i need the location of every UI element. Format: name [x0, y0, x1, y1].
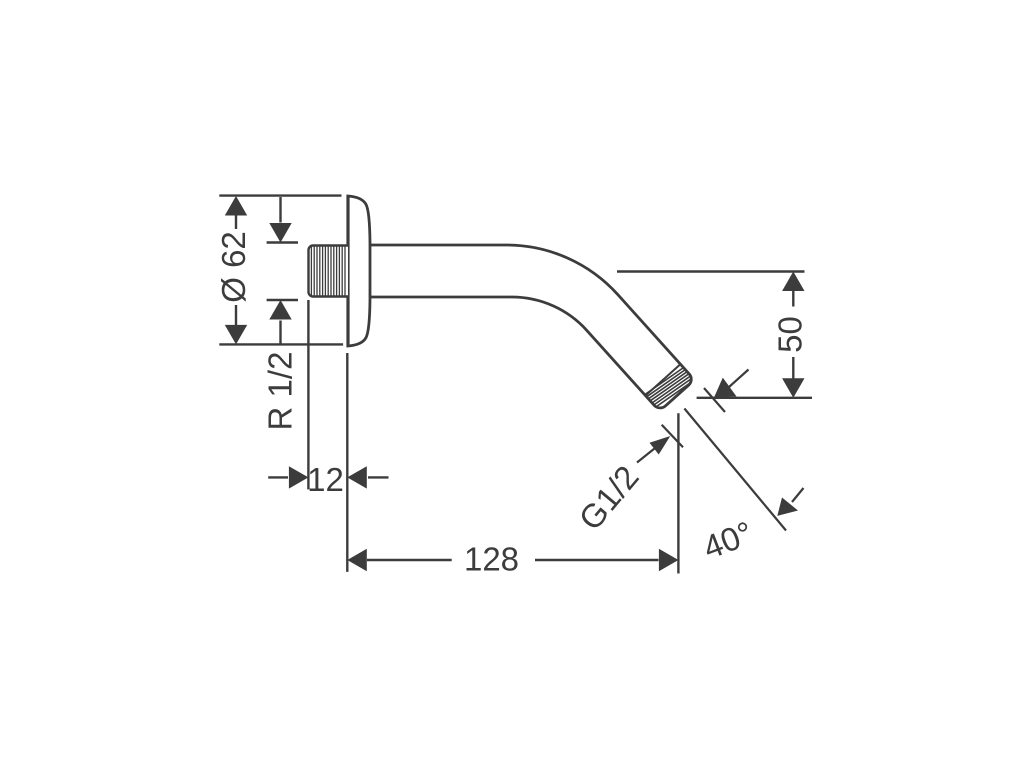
svg-text:128: 128: [464, 541, 519, 578]
svg-text:12: 12: [307, 461, 344, 498]
svg-text:Ø 62: Ø 62: [215, 231, 252, 303]
svg-text:R 1/2: R 1/2: [262, 352, 299, 431]
svg-text:G1/2: G1/2: [571, 458, 645, 537]
svg-text:40°: 40°: [698, 514, 758, 566]
svg-text:50: 50: [771, 316, 808, 353]
